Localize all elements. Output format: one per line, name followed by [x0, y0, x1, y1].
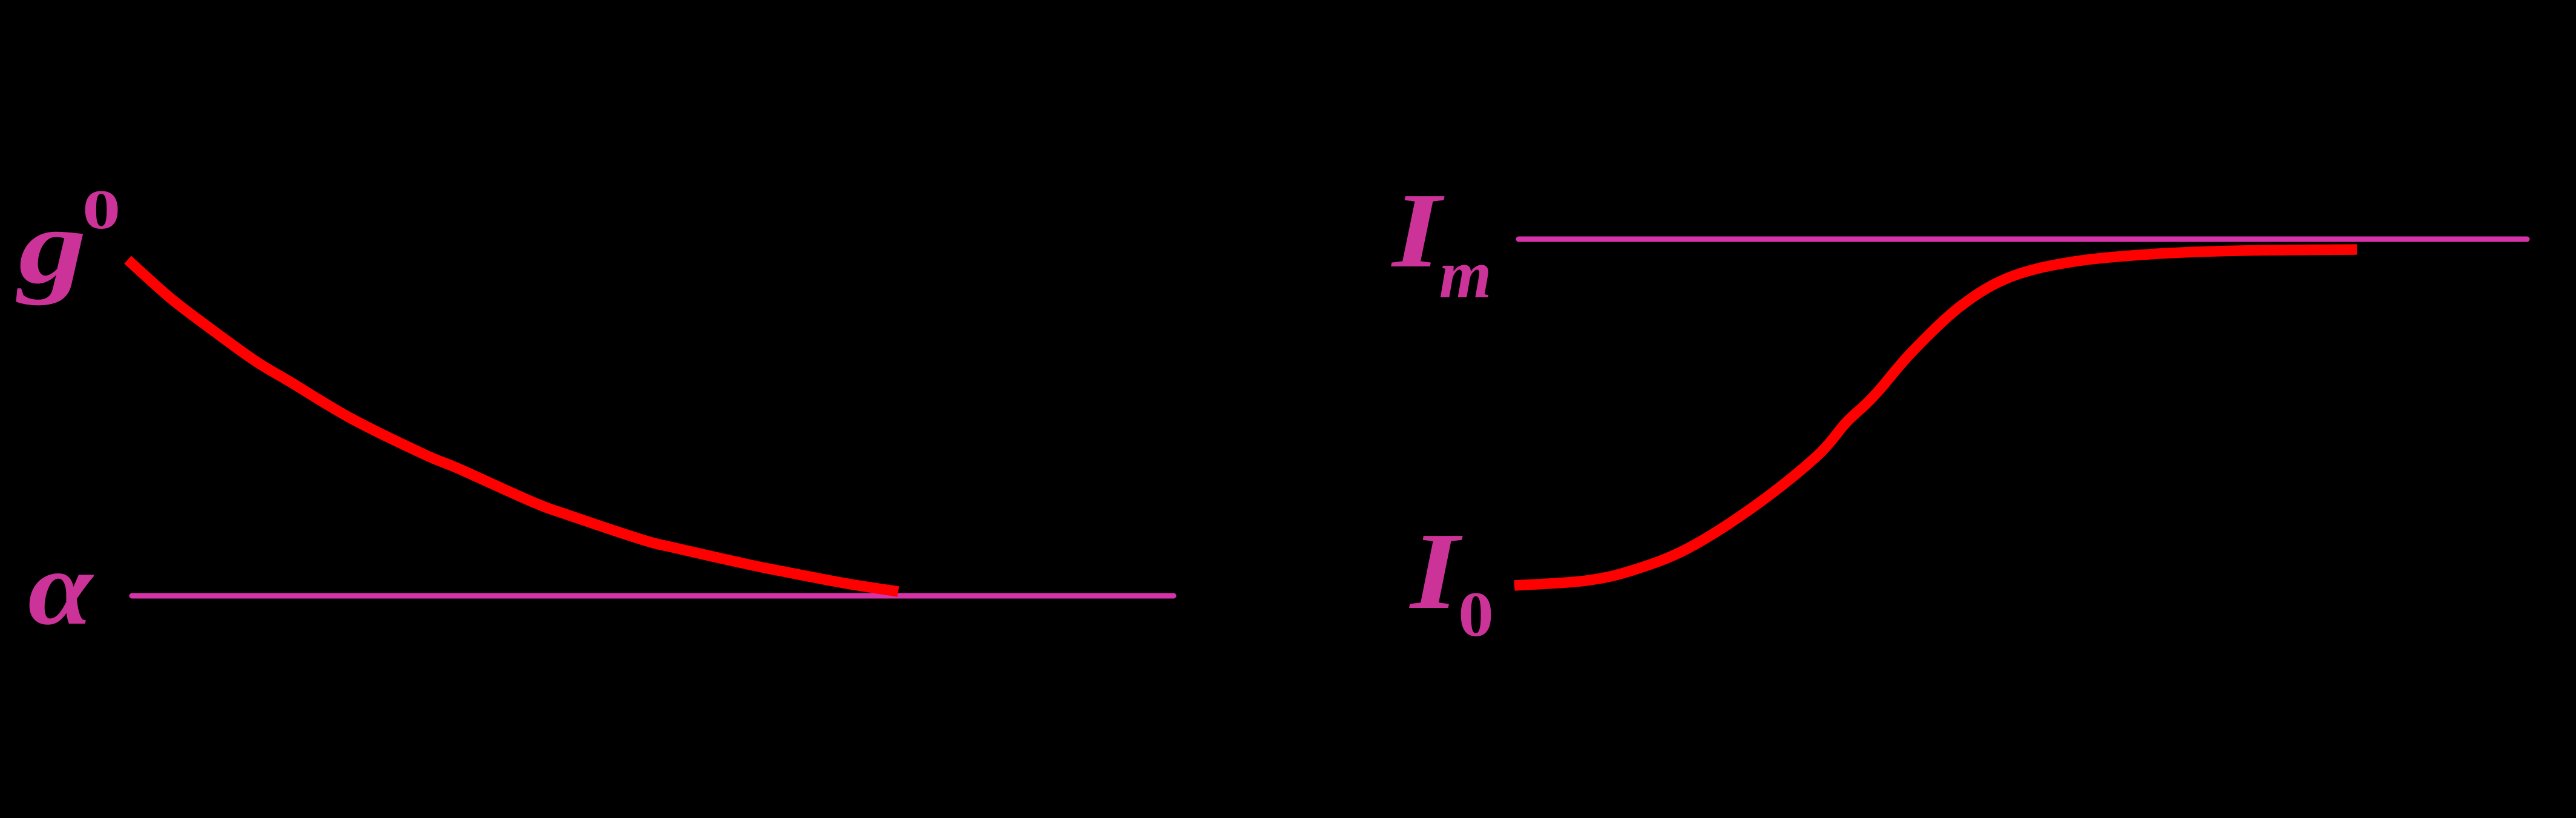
svg-text:α: α [28, 529, 94, 647]
svg-text:m: m [1439, 237, 1492, 312]
svg-text:g: g [16, 186, 87, 306]
svg-text:I: I [1391, 171, 1445, 290]
svg-text:0: 0 [82, 179, 120, 241]
svg-text:0: 0 [1458, 579, 1494, 650]
svg-text:I: I [1409, 510, 1463, 632]
